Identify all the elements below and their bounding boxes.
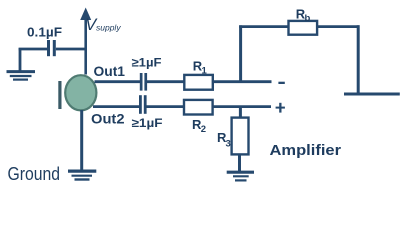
capacitor C2 >=1uF (Out2 coupling) [139, 95, 147, 114]
label R2 [192, 117, 206, 135]
wire (mic case to ground) [80, 110, 83, 170]
capacitor C1 >=1uF (Out1 coupling) [140, 73, 147, 91]
wire (C2 to R2) [146, 105, 184, 108]
resistor Rb (feedback) [289, 21, 318, 35]
pin - (inverting input) [278, 82, 284, 84]
wire (feedback node up to Rb) [239, 25, 242, 82]
svg-text:≥1µF: ≥1µF [132, 56, 162, 70]
capacitor 0.1uF (supply bypass) [47, 40, 56, 56]
wire (Rb to output corner) [317, 25, 360, 28]
svg-text:2: 2 [201, 124, 206, 135]
label R3 [217, 130, 231, 149]
wire (R3 node down to R3) [239, 107, 242, 118]
wire (C1 to R1) [147, 80, 185, 83]
wire (mic Out1 to C1) [95, 80, 141, 83]
resistor R2 [184, 100, 213, 115]
svg-text:Out2: Out2 [91, 111, 125, 127]
svg-text:≥1µF: ≥1µF [132, 116, 163, 130]
svg-text:Ground: Ground [8, 164, 61, 184]
svg-text:Amplifier: Amplifier [270, 142, 342, 159]
wire (R2 to non-inverting input, through R3 node) [213, 105, 271, 108]
power Vsupply arrow [80, 8, 91, 75]
label Rb [296, 7, 311, 25]
ground (mic ground) [68, 171, 96, 179]
ground (R3 ground) [227, 172, 254, 180]
wire (ground to C bypass left plate) [19, 48, 48, 51]
label Vsupply [85, 16, 121, 34]
ground (top-left bypass-cap ground) [7, 48, 36, 80]
svg-text:3: 3 [226, 138, 231, 149]
wire (amplifier output) [344, 93, 400, 96]
label R1 [193, 59, 208, 77]
svg-text:supply: supply [96, 23, 121, 33]
svg-text:b: b [305, 13, 311, 24]
svg-text:0.1µF: 0.1µF [27, 25, 62, 40]
wire (top feedback run to Rb) [239, 25, 289, 28]
pin + (non-inverting input) [276, 103, 285, 113]
resistor R3 [232, 118, 249, 155]
wire (right vertical down to output) [357, 25, 360, 94]
microphone MIC (electret capsule) [58, 75, 96, 110]
wire (mic Out2 to C2) [93, 105, 140, 108]
wire (R1 to inverting input, through feedback node) [213, 80, 272, 83]
wire (C bypass right plate to Vsupply line) [56, 48, 87, 51]
wire (R3 to ground) [238, 154, 241, 171]
svg-text:Out1: Out1 [94, 63, 126, 79]
resistor R1 [184, 75, 213, 90]
svg-text:1: 1 [202, 66, 208, 77]
